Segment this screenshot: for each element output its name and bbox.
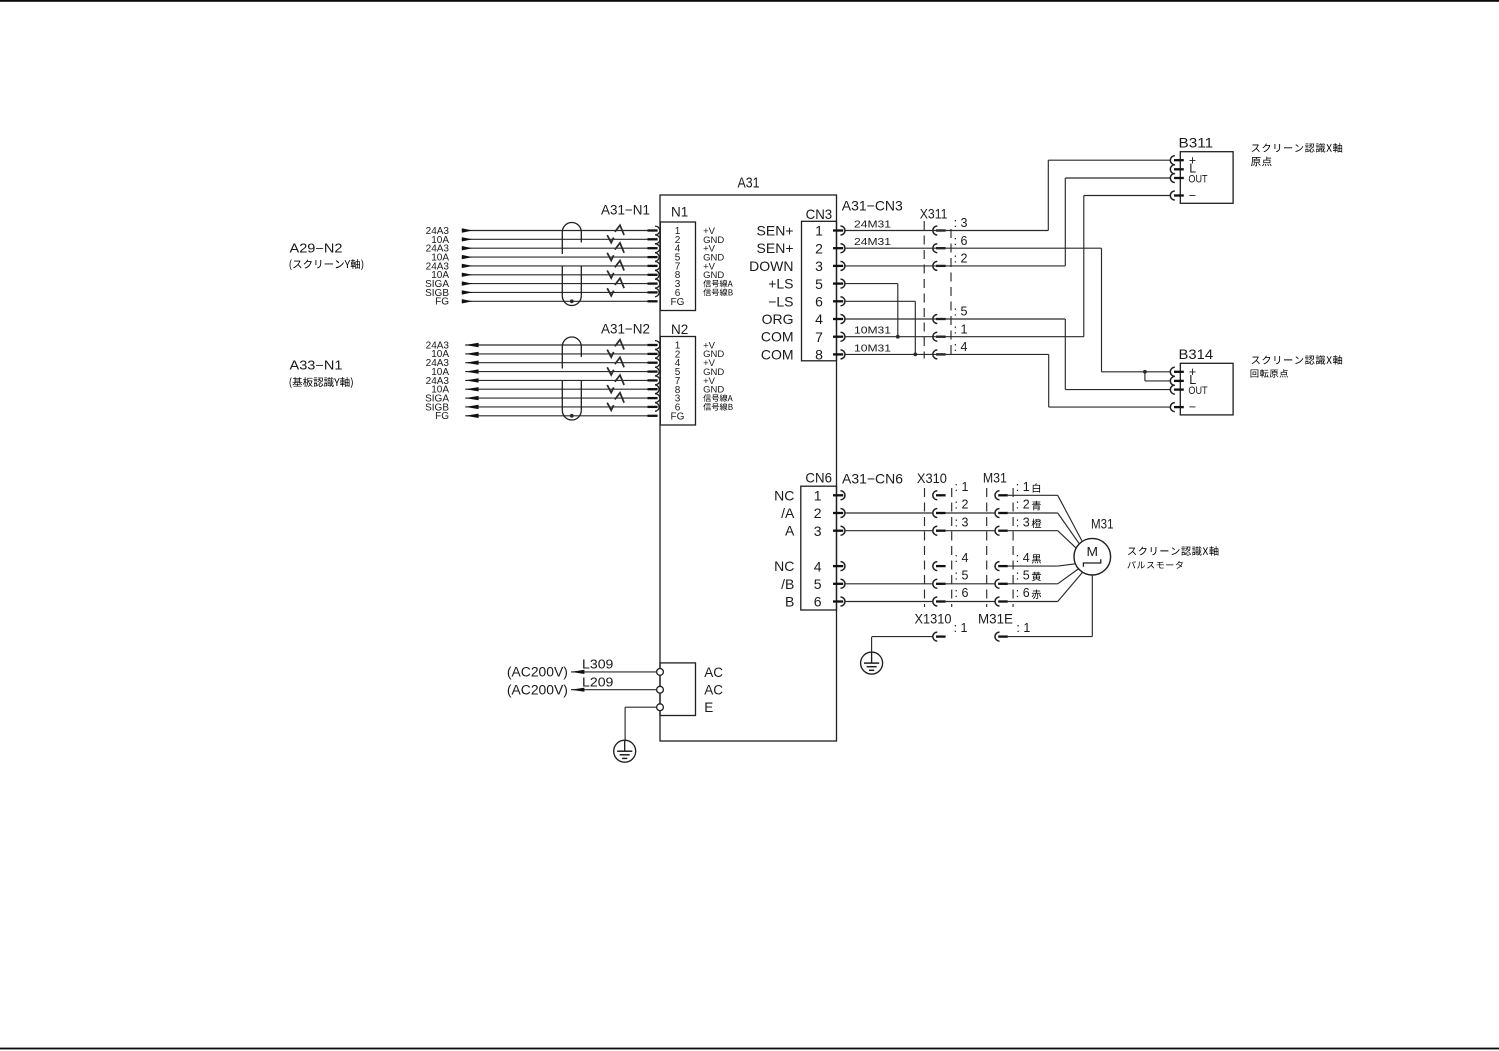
svg-text:M31: M31 (1091, 516, 1114, 531)
svg-text:1: 1 (814, 488, 822, 504)
svg-text:A31−N2: A31−N2 (601, 321, 650, 336)
svg-text:: 2: : 2 (954, 252, 968, 266)
svg-text:GND: GND (703, 270, 724, 281)
svg-text:: 1: : 1 (955, 480, 969, 494)
svg-text:: 4: : 4 (954, 340, 968, 354)
svg-text:/B: /B (781, 576, 794, 592)
svg-text:OUT: OUT (1188, 173, 1207, 185)
svg-text:(AC200V): (AC200V) (507, 683, 568, 698)
svg-text:24M31: 24M31 (854, 218, 891, 230)
svg-text:10M31: 10M31 (854, 342, 891, 354)
svg-text:5: 5 (815, 276, 823, 292)
svg-text:N1: N1 (671, 204, 688, 219)
svg-text:: 1: : 1 (954, 621, 968, 635)
svg-text:6: 6 (814, 594, 822, 610)
svg-text:OUT: OUT (1188, 385, 1207, 397)
svg-text:CN3: CN3 (806, 206, 833, 222)
svg-text:A: A (785, 523, 795, 539)
svg-text:B: B (785, 594, 794, 610)
svg-text:FG: FG (435, 411, 449, 422)
svg-text:−: − (1189, 189, 1196, 203)
svg-text:X311: X311 (920, 205, 948, 221)
svg-text:−: − (1189, 400, 1196, 414)
svg-text:A31−N1: A31−N1 (601, 203, 650, 218)
svg-text:: 1: : 1 (1016, 621, 1030, 635)
svg-text:: 4: : 4 (1016, 551, 1030, 565)
svg-text:B311: B311 (1179, 136, 1214, 151)
svg-text:A29−N2: A29−N2 (290, 241, 343, 255)
svg-text:E: E (704, 700, 713, 715)
svg-text:3: 3 (814, 523, 822, 539)
svg-text:GND: GND (703, 385, 724, 396)
svg-text:N2: N2 (671, 322, 688, 337)
svg-text:4: 4 (815, 311, 823, 327)
svg-text:A33−N1: A33−N1 (290, 358, 343, 372)
svg-text:7: 7 (815, 329, 823, 345)
svg-text:4: 4 (814, 558, 822, 574)
svg-text:6: 6 (815, 294, 823, 310)
svg-text:COM: COM (761, 329, 794, 345)
svg-text:X310: X310 (917, 470, 947, 486)
svg-text:24M31: 24M31 (854, 236, 891, 248)
svg-text:A31−CN3: A31−CN3 (842, 198, 903, 214)
svg-text:L209: L209 (582, 675, 613, 689)
svg-text:M31E: M31E (978, 612, 1013, 627)
svg-text:: 1: : 1 (954, 322, 968, 336)
svg-text:5: 5 (814, 576, 822, 592)
svg-text:COM: COM (761, 346, 794, 362)
svg-text:FG: FG (671, 411, 685, 422)
svg-text:M31: M31 (983, 469, 1007, 485)
svg-text:: 3: : 3 (954, 216, 968, 230)
svg-text:SEN+: SEN+ (757, 223, 794, 239)
svg-text:FG: FG (435, 297, 449, 308)
svg-text:: 5: : 5 (1016, 569, 1030, 583)
svg-text:2: 2 (815, 240, 823, 256)
svg-text:NC: NC (774, 487, 794, 503)
svg-text:: 5: : 5 (954, 305, 968, 319)
svg-text:2: 2 (814, 505, 822, 521)
svg-text:ORG: ORG (762, 311, 794, 327)
svg-text:: 3: : 3 (1016, 515, 1030, 529)
svg-text:FG: FG (671, 297, 685, 308)
svg-text:B314: B314 (1179, 347, 1214, 362)
svg-text:M: M (1087, 544, 1099, 559)
svg-text:CN6: CN6 (805, 470, 832, 486)
svg-text:(AC200V): (AC200V) (507, 665, 568, 680)
svg-text:X1310: X1310 (915, 612, 952, 627)
svg-text:: 6: : 6 (954, 234, 968, 248)
svg-text:A31: A31 (738, 176, 760, 192)
svg-text:: 6: : 6 (955, 586, 969, 600)
svg-text:DOWN: DOWN (749, 258, 793, 274)
svg-text:: 5: : 5 (955, 569, 969, 583)
svg-text:A31−CN6: A31−CN6 (842, 471, 903, 487)
svg-text:−LS: −LS (768, 293, 793, 309)
svg-text:L309: L309 (582, 658, 613, 672)
svg-text:SEN+: SEN+ (757, 240, 794, 256)
svg-text:AC: AC (704, 683, 723, 698)
svg-text:: 2: : 2 (1016, 498, 1030, 512)
svg-text:1: 1 (815, 223, 823, 239)
svg-text:: 6: : 6 (1016, 586, 1030, 600)
svg-text:: 4: : 4 (955, 551, 969, 565)
svg-text:/A: /A (781, 505, 795, 521)
svg-text:AC: AC (704, 665, 723, 680)
svg-text:+LS: +LS (768, 276, 793, 292)
svg-text:3: 3 (815, 258, 823, 274)
svg-text:: 1: : 1 (1016, 480, 1030, 494)
svg-text:10M31: 10M31 (854, 325, 891, 337)
svg-text:NC: NC (774, 558, 794, 574)
svg-text:8: 8 (815, 347, 823, 363)
svg-text:: 3: : 3 (955, 515, 969, 529)
svg-text:: 2: : 2 (955, 498, 969, 512)
